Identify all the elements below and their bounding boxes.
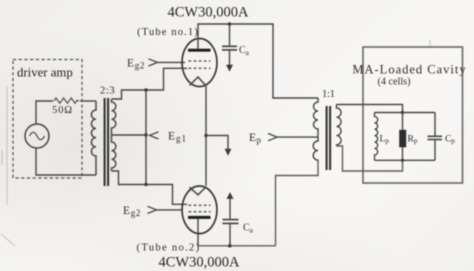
- wire: Eg2 top feed to tube1 screen grid: [158, 61, 186, 63]
- label: (Tube no.2): [137, 243, 201, 254]
- label: Eg2 bottom with arrow: [123, 205, 141, 218]
- resistor 50ohm zigzag: [54, 98, 79, 103]
- wire: cathode line tube1 to tube2: [205, 86, 207, 186]
- label: tube type title top "4CW30,000A": [168, 5, 249, 21]
- svg-text:Eg2: Eg2: [123, 205, 141, 218]
- label: Ep with arrow: [249, 132, 262, 145]
- label: Ca bottom: [243, 223, 254, 235]
- wire: Ca top to ground: [229, 50, 231, 65]
- label: Eg2 top with arrow: [127, 58, 145, 71]
- ground arrow (top Ca): [226, 65, 233, 72]
- wire: source top to resistor: [36, 101, 53, 124]
- label: Rp: [408, 134, 418, 146]
- svg-text:Ep: Ep: [249, 132, 262, 145]
- node: tank top junction: [401, 111, 404, 114]
- tube U2 control grid (dashed): [189, 204, 211, 206]
- svg-text:Rp: Rp: [408, 134, 418, 146]
- inductor Lp (tank left branch): [375, 113, 378, 161]
- wire: resistor to transformer T1 primary top: [80, 100, 96, 102]
- label: Eg1 with arrow: [150, 132, 159, 139]
- ground arrow (cathode): [225, 149, 232, 156]
- wire: bottom rail: [198, 245, 276, 247]
- svg-text:(4 cells): (4 cells): [377, 77, 410, 88]
- svg-text:(Tube no.2): (Tube no.2): [137, 243, 201, 254]
- capacitor Cp (tank right branch): [434, 113, 436, 136]
- label: Cp: [445, 134, 455, 146]
- wire: tank top rail: [375, 112, 436, 114]
- label: Ca top: [239, 45, 250, 57]
- AC source V1 (sine generator circle): [25, 124, 49, 148]
- svg-text:Lp: Lp: [380, 134, 390, 146]
- wire: grid bias vertical line: [145, 90, 147, 185]
- wire: T1 secondary center tap: [112, 134, 147, 136]
- wire: tube U1 plate up to top rail, right, down to T2 primary top: [198, 24, 318, 98]
- svg-text:Eg1: Eg1: [168, 131, 187, 144]
- vacuum tube U2 (4CW30,000A no.2) envelope: [182, 186, 217, 234]
- node: Ca top junction on rail: [228, 22, 232, 26]
- wire: cathode ground branch: [206, 136, 228, 150]
- node: center tap junction: [144, 133, 147, 136]
- label: MA-Loaded Cavity: [352, 63, 466, 88]
- resistor Rp (tank middle branch): [402, 113, 404, 130]
- transformer T2 core: [327, 106, 331, 170]
- wire: tube U2 plate down to bottom rail: [197, 219, 199, 246]
- capacitor Ca top plates: [222, 46, 237, 50]
- scan artifact marks: [2, 40, 430, 166]
- label: Lp: [380, 134, 390, 146]
- tube U1 cathode filament V: [190, 77, 207, 86]
- wire: source bottom to transformer T1 primary bottom: [36, 148, 96, 175]
- tube U1 anode plate: [188, 49, 211, 52]
- node: tank bottom junction: [401, 159, 404, 162]
- wire: T2 primary bottom to bottom rail: [276, 161, 319, 246]
- capacitor Ca bottom plates: [223, 220, 239, 224]
- wire: Eg2 bottom feed to tube2 screen grid: [157, 209, 184, 211]
- wire: T1 secondary top to tube1 control grid (staircase): [112, 68, 188, 99]
- svg-text:4CW30,000A: 4CW30,000A: [159, 255, 240, 271]
- wire: Ca bottom to rail: [229, 223, 231, 245]
- label: (Tube no.1): [137, 27, 199, 38]
- tube U1 control grid (dashed): [189, 67, 211, 69]
- transformer T2 primary winding (center tapped): [313, 98, 318, 161]
- tube U2 cathode filament V: [190, 187, 207, 195]
- node: junction grid bias line / bottom staircase: [144, 183, 147, 186]
- MA-Loaded Cavity enclosure box: [363, 47, 463, 183]
- capacitor Ca bottom: wire from ground arrow: [229, 199, 231, 219]
- label: 50ohm value: [52, 105, 73, 116]
- label: driver amp: [17, 66, 73, 80]
- svg-text:Ca: Ca: [239, 45, 250, 57]
- wire: Ep feed to T2 primary center tap: [277, 136, 318, 138]
- svg-text:Cp: Cp: [445, 134, 455, 146]
- label: transformer T2 ratio 1:1: [322, 89, 335, 100]
- label: transformer T1 ratio 2:3: [100, 85, 115, 97]
- transformer T1 primary winding: [91, 101, 96, 175]
- svg-text:4CW30,000A: 4CW30,000A: [168, 5, 249, 21]
- capacitor Ca top: wire from rail: [229, 24, 231, 45]
- node: cathode / ground branch junction: [204, 134, 207, 137]
- svg-text:MA-Loaded Cavity: MA-Loaded Cavity: [352, 63, 466, 77]
- wire: T2 secondary bottom into cavity tank: [337, 146, 403, 171]
- label: tube type title bottom "4CW30,000A": [159, 255, 240, 271]
- wire: T2 secondary top into cavity tank: [337, 105, 403, 113]
- driver amp dashed enclosure box: [13, 60, 82, 179]
- svg-text:50Ω: 50Ω: [52, 105, 73, 116]
- svg-text:2:3: 2:3: [100, 85, 115, 97]
- transformer T1 core: [105, 98, 109, 186]
- svg-text:Eg2: Eg2: [127, 58, 145, 71]
- svg-text:driver amp: driver amp: [17, 66, 73, 80]
- tube U2 anode plate: [188, 216, 211, 219]
- wire: T1 secondary bottom to tube2 control grid (staircase): [112, 171, 188, 204]
- node: Ca bottom junction on rail: [228, 244, 232, 248]
- transformer T1 secondary winding (center tapped): [112, 99, 116, 171]
- svg-text:1:1: 1:1: [322, 89, 335, 100]
- tube U1 screen grid (dashed): [189, 60, 211, 62]
- transformer T2 secondary winding: [337, 105, 342, 147]
- tube U2 screen grid (dashed): [189, 211, 211, 213]
- vacuum tube U1 (4CW30,000A no.1) envelope: [182, 39, 217, 87]
- ground arrow up (bottom Ca): [227, 192, 234, 199]
- svg-text:(Tube no.1): (Tube no.1): [137, 27, 199, 38]
- wire: tank bottom rail: [375, 159, 436, 161]
- node: junction grid bias line / top staircase: [144, 88, 147, 91]
- svg-text:Ca: Ca: [243, 223, 254, 235]
